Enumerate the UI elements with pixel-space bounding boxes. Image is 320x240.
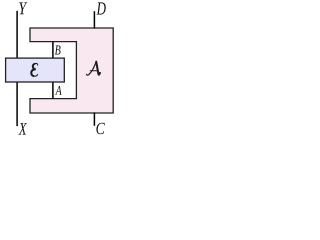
label D — [96, 2, 105, 14]
box E (lavender) — [6, 58, 65, 82]
wire B (E box top to notch top) — [52, 42, 54, 59]
label X — [19, 123, 27, 135]
label script E (mathcal E) — [31, 63, 37, 76]
label C — [96, 123, 104, 135]
label Y — [19, 2, 27, 14]
wire A (E box bottom to notch bottom) — [52, 82, 54, 99]
wire D (top of box A) — [93, 11, 95, 28]
label A — [55, 86, 62, 95]
wire Y (left wire, upper segment) — [16, 11, 18, 59]
wire X (left wire, lower segment) — [16, 82, 18, 127]
label script A (mathcal A) — [87, 62, 101, 76]
wire C (bottom of box A) — [93, 112, 95, 125]
background — [0, 0, 118, 137]
box A (C-shaped pink region with left notch) — [30, 28, 113, 113]
label B — [55, 46, 61, 55]
